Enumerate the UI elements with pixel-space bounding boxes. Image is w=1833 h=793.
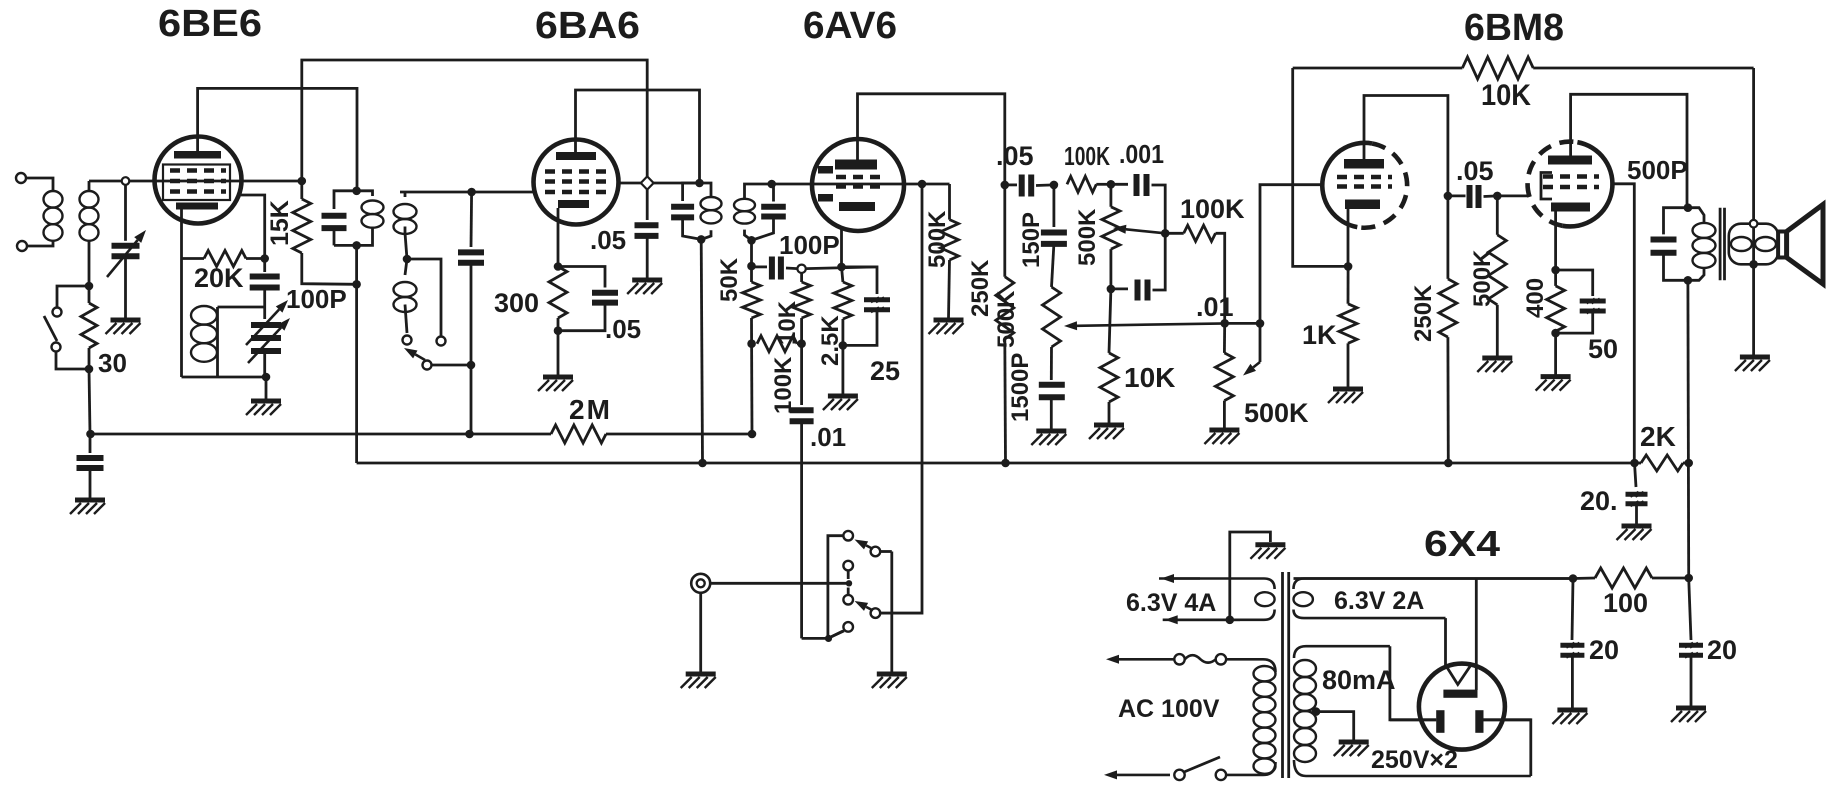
HV center tap	[1312, 707, 1321, 716]
svg-text:250V×2: 250V×2	[1371, 746, 1458, 774]
V2 grid dashes	[545, 169, 608, 174]
svg-text:6.3V 2A: 6.3V 2A	[1334, 587, 1424, 615]
resistor R15 1K	[1347, 266, 1350, 303]
svg-text:500K: 500K	[1469, 249, 1496, 307]
resistor R2 20K	[182, 257, 205, 260]
hop circle	[797, 265, 805, 273]
svg-text:500K: 500K	[1074, 208, 1101, 266]
svg-text:500K: 500K	[1244, 398, 1309, 428]
resistor R21 100	[1595, 568, 1652, 588]
capacitor C14 .05	[1448, 194, 1466, 197]
svg-text:10K: 10K	[1481, 79, 1531, 112]
wire V2 cathode	[557, 208, 560, 267]
svg-text:.01: .01	[810, 422, 846, 452]
svg-text:100P: 100P	[286, 284, 347, 314]
V5 plate bar	[1548, 156, 1592, 165]
ground below C19	[1676, 706, 1706, 711]
wire V5 cathode	[1554, 212, 1557, 271]
wire 50K bottom to AVC bus	[750, 344, 753, 434]
band switch pole	[423, 361, 432, 370]
capacitor C5 .05 cathode	[558, 267, 605, 288]
svg-text:100: 100	[1603, 588, 1648, 618]
wire T2 primary bottom to B+ bus	[701, 239, 702, 463]
svg-text:.05: .05	[590, 225, 626, 255]
svg-text:400: 400	[1522, 278, 1549, 318]
IF transformer T2 primary	[695, 179, 704, 188]
svg-text:250K: 250K	[1410, 284, 1437, 342]
svg-text:1500P: 1500P	[1007, 353, 1034, 422]
heater center tap ground	[1226, 616, 1235, 625]
wire diode to function switch	[880, 184, 922, 613]
V4 grid dashes	[1337, 175, 1392, 180]
speaker voice coil box	[1729, 224, 1778, 265]
T2 primary coil	[700, 183, 712, 198]
voice coil loops	[1731, 237, 1752, 251]
resistor R3 15K	[300, 181, 303, 199]
resistor R9 2.5K	[842, 267, 843, 282]
VR3 wiper	[1225, 322, 1260, 325]
resistor R19 400	[1554, 270, 1557, 286]
primary winding	[1226, 659, 1276, 672]
ground below R15	[1333, 387, 1363, 392]
ground below VC1	[111, 318, 141, 323]
svg-text:20: 20	[1707, 635, 1737, 665]
T1 secondary top wire to 6BA6 grid	[400, 191, 534, 194]
tube V2 6BA6 IF amp	[534, 140, 619, 225]
tube V4 6BM8 triode	[1357, 144, 1407, 228]
svg-text:6BM8: 6BM8	[1464, 7, 1564, 49]
ground below C11	[1036, 429, 1066, 434]
V5 grid dashes	[1543, 174, 1599, 179]
svg-text:100K: 100K	[1180, 194, 1245, 224]
wire V2 screen	[618, 182, 700, 185]
resistor R17 250K	[1447, 196, 1450, 279]
svg-text:20.: 20.	[1580, 486, 1618, 516]
T2 secondary	[767, 180, 776, 189]
resistor R16 10K decoupling	[1293, 67, 1463, 70]
wire .01 to S2 contact	[802, 637, 828, 640]
VR2 wiper	[1161, 229, 1170, 238]
svg-text:2K: 2K	[1640, 421, 1676, 452]
wire 6AV6 cathode	[840, 227, 843, 267]
potentiometer VR1 500K volume	[1043, 287, 1061, 347]
tube V3 6AV6 det/AF	[812, 139, 904, 231]
svg-text:250K: 250K	[967, 259, 994, 317]
band switch contact b	[437, 337, 446, 346]
wire V1 plate to IFT1	[198, 88, 357, 190]
ground below jack	[699, 593, 702, 672]
wire secondary bottom	[88, 241, 91, 286]
oscillator coil L2	[180, 259, 183, 378]
T1 secondary coil upper	[404, 192, 407, 197]
wire V4 cathode	[1347, 209, 1350, 266]
V1 grid dashes	[170, 168, 226, 173]
capacitor C2 100P osc grid	[263, 259, 266, 273]
ground below C18	[1557, 708, 1587, 713]
wire cathode out	[1475, 579, 1478, 691]
switch S1 wave	[57, 286, 89, 308]
potentiometer VR2 500K tone	[1110, 184, 1113, 207]
ground below oscillator	[265, 377, 268, 399]
ground below R5	[557, 331, 560, 375]
switch S2 contact top	[843, 531, 853, 541]
wire V4 plate	[1364, 96, 1448, 196]
tube V1 6BE6 converter	[155, 137, 242, 224]
HV top to plate 1	[1390, 646, 1436, 720]
ground below C17	[1622, 524, 1652, 529]
resistor R12 100K	[1067, 176, 1096, 192]
HV secondary winding	[1294, 646, 1390, 658]
resistor R1 30	[88, 286, 91, 303]
power transformer core	[1281, 572, 1284, 778]
ground below S2	[890, 613, 893, 672]
antenna terminal J1	[16, 173, 26, 183]
resistor R20 2K	[1641, 455, 1683, 471]
wire plate1 lead	[1390, 718, 1436, 721]
ground below R10	[934, 318, 964, 323]
wire heater to 6X4 filament	[1444, 618, 1447, 665]
S2 rotor tie wire	[880, 550, 892, 553]
V6 cathode bar	[1443, 690, 1477, 698]
capacitor C18 20uF first	[1572, 579, 1573, 641]
wire T3 bottom to B+ node	[1687, 280, 1691, 578]
capacitor C4 .05 screen bypass	[646, 190, 649, 220]
capacitor C16 500P tone	[1664, 208, 1688, 235]
svg-text:.001: .001	[1119, 139, 1164, 169]
svg-text:20K: 20K	[194, 263, 244, 293]
S2 pole lower	[843, 595, 853, 605]
wire through 6AV6 diode line	[812, 183, 897, 186]
junction tuning cap	[122, 177, 130, 185]
potentiometer VR3 500K avc	[1220, 319, 1229, 328]
feedback wire from 10K line	[1293, 68, 1348, 266]
antenna coil L1 secondary	[88, 181, 91, 191]
V4 cathode bar	[1345, 200, 1380, 210]
wire V5 plate	[1571, 94, 1687, 207]
S2 rotor 2	[871, 608, 881, 618]
svg-text:30: 30	[98, 348, 127, 378]
V6 plate 1 bar	[1436, 710, 1444, 733]
antenna coil L1 primary	[45, 178, 53, 191]
svg-text:6.3V 4A: 6.3V 4A	[1126, 589, 1216, 617]
node V1 screen	[298, 177, 307, 186]
svg-text:20: 20	[1589, 635, 1619, 665]
svg-text:300: 300	[494, 288, 539, 318]
heater winding 6.3V4A	[1159, 579, 1275, 590]
junction on AVC bus	[465, 430, 474, 439]
svg-text:1K: 1K	[1302, 320, 1337, 350]
rectifier output line	[1294, 577, 1574, 580]
svg-text:6BA6: 6BA6	[535, 5, 640, 47]
capacitor C7 .01	[800, 344, 803, 405]
svg-text:25: 25	[870, 356, 900, 386]
capacitor C9 .05 coupling	[1005, 183, 1017, 186]
V6 plate 2 bar	[1475, 710, 1483, 733]
wire V1 cathode	[180, 210, 183, 259]
HV bottom to plate 2	[1484, 720, 1531, 776]
wire V3 plate up	[858, 94, 1005, 185]
resistor R5 300	[549, 267, 567, 319]
V5 beam bracket	[1541, 173, 1552, 200]
ground below R13	[1094, 423, 1124, 428]
wire V2 plate to T2	[576, 90, 700, 183]
V3 grid dashes	[836, 175, 881, 180]
V1 grid box	[163, 165, 230, 201]
ground below R19	[1554, 333, 1557, 375]
V2 plate bar	[556, 152, 596, 160]
ground below VR3	[1209, 428, 1239, 433]
oscillator padder trimmer VC2	[251, 322, 281, 328]
svg-text:2M: 2M	[569, 394, 612, 425]
V5 cathode bar	[1551, 203, 1590, 212]
node V3 plate	[1001, 181, 1010, 190]
wire plate2 lead	[1484, 718, 1531, 721]
S2 pole upper	[843, 561, 853, 571]
wire T2 sec top to 6AV6	[772, 183, 812, 186]
resistor R8 10K	[800, 273, 803, 282]
wire V3 diode out	[897, 183, 922, 186]
wire jack to switch pole	[710, 582, 849, 585]
V1 cathode bar	[176, 203, 218, 210]
V3 diode plates	[818, 166, 833, 174]
svg-text:.05: .05	[605, 314, 641, 344]
heater winding 6.3V2A	[1294, 579, 1574, 590]
capacitor C11 1500P	[1050, 347, 1053, 380]
svg-text:10K: 10K	[1124, 362, 1175, 393]
wire to AVC bus	[89, 369, 90, 434]
band switch contact a	[403, 336, 412, 345]
svg-text:100K: 100K	[1064, 141, 1110, 171]
wire V1 osc grid	[241, 195, 265, 259]
speaker cone	[1778, 232, 1787, 258]
ground below speaker	[1740, 355, 1770, 360]
resistor R18 500K grid	[1496, 196, 1499, 235]
ground below C1	[75, 498, 105, 503]
resistor R4 2M	[551, 425, 606, 443]
T1 secondary coil lower	[405, 259, 407, 275]
capacitor C13 .01	[1111, 287, 1128, 290]
tube V5 6BM8 pentode	[1528, 142, 1578, 226]
V3 cathode bar	[839, 202, 875, 211]
S2 rotor 1	[871, 547, 881, 557]
wire T1 bottom to B+ bus	[355, 245, 358, 463]
svg-text:100P: 100P	[779, 230, 840, 260]
resistor R13 10K	[1109, 289, 1111, 353]
T3 core	[1719, 208, 1722, 281]
wire V5 screen to B+	[1610, 184, 1634, 463]
svg-text:100K: 100K	[770, 356, 797, 414]
heater arrows 4A	[1174, 577, 1200, 580]
T2 secondary trimmer cap	[772, 184, 774, 202]
svg-text:150P: 150P	[1018, 212, 1045, 268]
ground below R9	[842, 345, 845, 394]
svg-text:10K: 10K	[774, 300, 801, 345]
phono jack J3	[691, 574, 710, 593]
resistor R6 50K	[750, 266, 753, 282]
svg-text:6X4: 6X4	[1424, 523, 1500, 564]
svg-text:6AV6: 6AV6	[803, 5, 897, 47]
resistor R7 100K horizontal	[757, 336, 797, 352]
V1 plate bar	[174, 151, 221, 159]
ground below C4	[632, 278, 662, 283]
svg-text:500K: 500K	[993, 290, 1020, 348]
AVC bus wire	[90, 433, 551, 436]
wire to pentode grid	[1497, 194, 1528, 197]
wire detector node	[750, 240, 753, 266]
wire osc coil tap	[218, 306, 265, 309]
wire screen top line	[302, 60, 647, 183]
capacitor C6 100P coupling	[752, 265, 768, 268]
tube V6 6X4 rectifier	[1419, 664, 1505, 750]
S2 top wire	[828, 536, 844, 639]
capacitor C19 20uF second	[1689, 578, 1691, 640]
svg-text:50K: 50K	[716, 257, 743, 302]
svg-text:.05: .05	[996, 141, 1034, 171]
output transformer T3 top node	[1684, 203, 1693, 212]
antenna terminal J2	[17, 241, 27, 251]
T1 primary coil	[357, 191, 373, 196]
V4 plate bar	[1344, 159, 1384, 169]
svg-text:15K: 15K	[266, 200, 294, 246]
trimmer capacitor C3	[470, 192, 473, 247]
V2 cathode bar	[558, 200, 589, 208]
capacitor C8 25 electrolytic	[842, 267, 878, 294]
svg-text:500K: 500K	[924, 210, 951, 268]
node .05 coupling	[1444, 192, 1453, 201]
wire V4 grid	[1260, 185, 1323, 324]
resistor R14 100K to AVC	[1184, 225, 1216, 241]
VR1 wiper	[1077, 323, 1226, 325]
B+ bus wire	[357, 462, 1635, 465]
T3 primary coil	[1688, 208, 1704, 223]
svg-text:80mA: 80mA	[1322, 665, 1396, 695]
svg-text:AC 100V: AC 100V	[1118, 695, 1220, 723]
capacitor C10 150P	[1053, 185, 1056, 227]
crossover diamond	[641, 176, 654, 189]
band switch tap wire	[407, 259, 441, 336]
V3 plate bar	[835, 160, 877, 170]
svg-text:.05: .05	[1456, 156, 1494, 186]
svg-text:500P: 500P	[1627, 155, 1688, 185]
wire grid 6BE6	[89, 180, 302, 183]
capacitor C1 AVC filter	[86, 430, 95, 439]
capacitor C12 .001	[1111, 183, 1128, 186]
resistor R10 500K diode load	[948, 184, 951, 220]
AC line 2 with switch S3	[1117, 774, 1170, 777]
S2 contact .01	[843, 622, 853, 632]
ground below R18	[1482, 356, 1512, 361]
svg-text:2.5K: 2.5K	[817, 315, 844, 366]
svg-text:6BE6: 6BE6	[158, 3, 262, 45]
svg-text:.01: .01	[1196, 292, 1234, 322]
capacitor C15 50 electrolytic	[1556, 270, 1593, 296]
V6 filament V	[1446, 665, 1472, 685]
AC line 1 with fuse	[1119, 658, 1174, 661]
variable capacitor VC1 tuning	[124, 185, 127, 241]
IF transformer T1 primary	[352, 187, 361, 196]
svg-text:50: 50	[1588, 334, 1618, 364]
resistor R11 250K plate load	[1003, 185, 1006, 277]
wire field supply	[1752, 68, 1755, 220]
capacitor C17 20 screen filter	[1635, 463, 1637, 487]
